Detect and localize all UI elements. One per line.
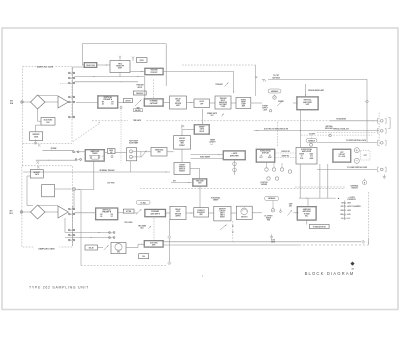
preamp A (triangle) (58, 96, 68, 108)
interconnect dashed labels (275, 150, 296, 158)
svg-text:RESET: RESET (220, 217, 225, 219)
switch contact bus A (72, 71, 74, 119)
power supply note A (262, 106, 268, 112)
wire interlace right long 1 (164, 241, 362, 242)
recovery box small (139, 254, 149, 259)
trigger label and arrow (215, 82, 229, 86)
wire interdot to memory (209, 212, 214, 214)
svg-text:NORM: NORM (299, 154, 304, 156)
wire memory to smoothing (231, 212, 236, 214)
horizontal sweep out label (211, 196, 220, 201)
wire timer contacts to sampling timer (79, 151, 85, 153)
power terminal +300V (341, 202, 351, 204)
dashed link B row (153, 218, 155, 240)
svg-text:CIRCUIT: CIRCUIT (219, 211, 225, 213)
svg-text:TO CRT: TO CRT (273, 75, 279, 77)
dc offset label (265, 215, 273, 221)
svg-text:MILLER: MILLER (179, 138, 186, 140)
internal trigger line (23, 169, 170, 173)
neon bulb 1 (233, 162, 237, 166)
diamond connector right (365, 100, 368, 103)
trig level label (124, 222, 132, 224)
wire trigger multi to timing box (231, 102, 236, 104)
contact pair B2 (68, 213, 74, 215)
dashed enclosure: sampling gate A (23, 65, 73, 143)
long vertical wire right side (366, 79, 368, 142)
variable arrow memory (220, 224, 227, 230)
arrow into time-base (171, 180, 193, 183)
wire bridge A top to amp top (37, 95, 58, 97)
wire connector A to bridge A (23, 101, 30, 103)
svg-text:BLOCKING: BLOCKING (44, 120, 53, 122)
blocking oscillator A (41, 118, 55, 126)
contact pair timer 1 (73, 151, 79, 153)
svg-text:SWEEP: SWEEP (213, 199, 218, 201)
delay line driver B (170, 206, 186, 219)
wire output amp A down to horizontal display (300, 110, 302, 148)
wire trigger multi down to sweep gate (202, 109, 204, 124)
dashed bottom rail (81, 264, 167, 266)
svg-text:INPUT: INPUT (138, 87, 143, 89)
ramp mixer outer box (127, 148, 137, 161)
svg-text:OFF: OFF (341, 206, 344, 208)
power terminal +225V TO HEATERS (341, 205, 361, 208)
svg-text:FINE: FINE (267, 219, 270, 221)
interlace box (144, 240, 164, 247)
contact pair B wire end 1 (109, 232, 115, 234)
sweep generator box (174, 136, 191, 150)
antenna Y symbol (132, 57, 134, 62)
svg-text:HORIZ IN: HORIZ IN (351, 187, 357, 189)
strobe wire from sampling timer (76, 161, 94, 190)
diamond connector low (168, 262, 171, 265)
dashed rail 2 (140, 187, 345, 189)
svg-text:SWEEP: SWEEP (199, 127, 205, 129)
input connector A (21, 101, 24, 104)
svg-text:TIMING: TIMING (241, 99, 247, 101)
dashed stub left of contact pair A3 (60, 82, 69, 84)
svg-text:SUPPLY: SUPPLY (262, 108, 268, 110)
chassis dashed vertical at terminals (378, 113, 380, 148)
variable arrow output B (288, 202, 293, 215)
wire time-base down to interdot (199, 187, 201, 208)
svg-text:TRIGGER: TRIGGER (150, 70, 158, 72)
svg-text:MEMORY: MEMORY (219, 209, 226, 211)
vertical boundary right leg (165, 44, 167, 86)
svg-text:X1: X1 (301, 156, 303, 158)
diagonal dashed wire from gate A to rail (73, 122, 100, 142)
wire trigger pickoff to trigger circuit (164, 72, 235, 94)
svg-text:MEM 2: MEM 2 (220, 215, 225, 217)
variable arrow summing (141, 150, 147, 157)
input connector A label (10, 101, 14, 105)
wire forward gate to delay amp (164, 102, 170, 104)
dashed chassis rail (92, 120, 330, 122)
svg-text:DC SHIFT: DC SHIFT (309, 133, 315, 135)
forward gate amp B (145, 209, 166, 217)
gain adjust box (133, 91, 146, 95)
svg-text:6.3 V: 6.3 V (347, 218, 350, 220)
sampling bridge A (diamond) (31, 95, 46, 109)
svg-text:STROBE: STROBE (51, 148, 57, 150)
vertical preamp A box (98, 96, 119, 109)
wire contacts B to preamp box B (75, 212, 96, 214)
contact pair B5 (68, 239, 74, 241)
wire sweep gen to plus gate (191, 154, 224, 155)
wire preamp A to attenuator A (118, 102, 124, 104)
svg-text:COMP: COMP (241, 104, 246, 106)
svg-text:MEM 1: MEM 1 (220, 213, 225, 215)
timing switch box (174, 163, 190, 175)
blanking terminal (378, 118, 387, 123)
CRT ground (383, 174, 386, 178)
ground delayed gate (270, 234, 273, 238)
pots cluster controls (265, 163, 292, 181)
contact pair timer 2 (75, 159, 81, 161)
svg-text:DIV: DIV (111, 102, 114, 104)
svg-text:DIV: DIV (111, 214, 114, 216)
wire blocking B to timer line (42, 148, 73, 151)
svg-text:+300V: +300V (263, 110, 267, 112)
wire plus gate down (234, 160, 236, 175)
wire to CRT cathode (262, 79, 367, 81)
svg-text:CIRCUIT: CIRCUIT (339, 154, 345, 156)
external horizontal label (351, 184, 359, 189)
wire mixer down (130, 161, 132, 172)
wire interlace right long 2 (164, 244, 369, 246)
variable oval A (268, 89, 281, 93)
wire fga B to delay driver B (166, 212, 170, 214)
svg-text:HORIZ SWEEP: HORIZ SWEEP (200, 157, 210, 159)
svg-text:+300V: +300V (347, 203, 351, 205)
contact pair B3 (68, 229, 74, 231)
switch contact bus B (72, 206, 74, 246)
vertical wire left bus (80, 190, 82, 266)
input connector B (20, 211, 23, 214)
svg-text:SAMPLING GATE: SAMPLING GATE (37, 65, 54, 68)
svg-text:GND: GND (340, 214, 343, 216)
svg-text:INTERDOT: INTERDOT (197, 210, 204, 212)
delay line A (84, 62, 97, 67)
dc level label (255, 77, 257, 79)
wire attenuator B to fga B (134, 212, 138, 214)
input connector B label (9, 211, 13, 215)
inverter A (30, 132, 43, 141)
svg-text:TRIGGER: TRIGGER (136, 85, 144, 87)
svg-text:DLYD TRIG: DLYD TRIG (150, 242, 158, 244)
svg-text:MULTI: MULTI (221, 100, 226, 102)
bal adj label box (134, 109, 143, 112)
svg-text:SWP: SWP (268, 157, 271, 159)
output amplifier B box (297, 206, 317, 220)
CRT gun circle lower (354, 158, 359, 163)
svg-text:SWEEP SEL: SWEEP SEL (282, 156, 290, 158)
contact pair A6 (68, 116, 74, 118)
beam finder circle (362, 179, 366, 185)
svg-text:AMPLIFIER: AMPLIFIER (302, 150, 312, 153)
pot A time position (273, 95, 276, 100)
dashed enclosure: sampling gate B (22, 166, 73, 251)
dashed link attenuator to timer (152, 80, 154, 99)
contact pair A3 (68, 82, 74, 84)
wire delay driver to hold off (187, 102, 195, 103)
to CRT cathode label (272, 75, 280, 79)
plus gate box (223, 151, 246, 160)
svg-text:EXT: EXT (260, 157, 263, 159)
svg-text:DLYD: DLYD (271, 240, 275, 242)
pot under rate sw (111, 155, 113, 158)
stub trig takeoff to wire (119, 73, 121, 77)
dashed rail 2b (295, 186, 345, 188)
trigger sensitivity label (138, 225, 151, 229)
svg-text:OFF: OFF (200, 103, 203, 105)
pot B dc offset (271, 207, 274, 212)
sampling bridge B (diamond) (31, 205, 46, 219)
contact pair A4 (68, 96, 74, 98)
wire timing switch to time-base (190, 169, 200, 179)
wire bridge A bottom to blocking osc A (38, 109, 42, 121)
svg-text:CRT: CRT (364, 155, 367, 157)
vertical wire with diamonds (169, 220, 170, 262)
power bus vertical (344, 201, 346, 220)
svg-text:TIMER: TIMER (92, 153, 98, 155)
wire contact A row 2 (75, 81, 139, 82)
svg-text:COMP: COMP (221, 106, 226, 108)
wire timer to aux (105, 152, 107, 154)
pot below mini oval (310, 143, 313, 147)
wire smoothing to output B (252, 212, 298, 214)
svg-text:BLOCK DIAGRAM: BLOCK DIAGRAM (305, 271, 355, 276)
diamond connector lower right (362, 240, 365, 243)
diamond connector mid (168, 236, 171, 239)
wire sweep gen to timing switch (181, 149, 183, 162)
staircase generator box (151, 148, 167, 157)
svg-text:GEN: GEN (198, 183, 201, 185)
svg-text:EXT TRIG: EXT TRIG (108, 182, 116, 184)
fast ramp label (129, 140, 138, 145)
sweep gate box (194, 124, 210, 134)
dashed vertical swp mag (311, 135, 313, 138)
svg-text:-100V: -100V (347, 214, 351, 216)
svg-text:TRIG LEVEL: TRIG LEVEL (124, 222, 132, 224)
delayed trigger terminal (378, 128, 387, 133)
attenuator marks below inverter A (34, 139, 41, 146)
registration mark (350, 262, 354, 271)
delay pickoff box (85, 245, 98, 250)
ext trigger label (108, 182, 116, 184)
power supply header (347, 197, 356, 201)
wire mixer to staircase (141, 151, 151, 153)
dashed link display to amp (277, 122, 279, 148)
preamp B (triangle) (58, 206, 68, 218)
dc shift dashed line (301, 125, 376, 135)
sweep gate label (207, 112, 224, 117)
trigger amplifier box (110, 61, 130, 73)
wire delay line to trigger amp (97, 64, 110, 65)
svg-text:MEMORY: MEMORY (33, 134, 40, 136)
delayed trigger line (254, 128, 379, 132)
wire sweep gate to sweep generator (182, 130, 194, 136)
CRT dashed outline (361, 151, 371, 160)
contact pair A1 (68, 72, 74, 74)
svg-text:LINE: LINE (176, 101, 180, 103)
svg-text:LINE: LINE (176, 211, 180, 213)
pot sweep cal (269, 109, 271, 112)
output amplifier A box (297, 97, 319, 111)
svg-text:TRIGGER: TRIGGER (220, 98, 228, 100)
contact pair B4 (68, 234, 74, 236)
delayed gate label (271, 240, 275, 244)
svg-text:TYPE 262 SAMPLING UNIT: TYPE 262 SAMPLING UNIT (29, 286, 89, 290)
terminal group bracket (388, 118, 390, 129)
wire timing comp to output amp A (251, 102, 298, 104)
svg-text:DC OFFSET: DC OFFSET (265, 215, 273, 217)
CRT circuit box (333, 149, 351, 163)
attenuator marks B trigger (37, 161, 40, 169)
wire bridge A to amplifier A (45, 101, 58, 103)
wires horizontal amp down to output B (299, 164, 336, 207)
trigger pickoff box (145, 68, 164, 75)
trigger multivibrator box (215, 96, 231, 109)
wire memory gate B down to bridge (27, 176, 33, 206)
dashed vertical right lower (367, 192, 369, 238)
attenuator A (124, 99, 133, 103)
summing node 1 (129, 150, 132, 154)
time-base generator box (193, 179, 208, 187)
junction dot on delayed trigger line (300, 130, 301, 131)
svg-text:POWER SW: POWER SW (347, 199, 356, 201)
wire timer line 2 (36, 160, 76, 161)
wire contact A row to trigger takeoff (75, 76, 145, 77)
dashed wire top right (182, 65, 256, 96)
dashed gap segment between gate A and gate B (22, 143, 24, 166)
svg-text:PREAMP A: PREAMP A (103, 98, 113, 101)
wire trigger takeoff down to sampler (144, 77, 146, 99)
sync takeoff small box (137, 58, 148, 63)
svg-text:X10: X10 (310, 156, 313, 158)
plug-in boundary outline top (82, 44, 166, 65)
svg-text:DC: DC (255, 77, 257, 79)
power terminal -100V (340, 214, 350, 216)
vertical wire to bottom line (368, 238, 369, 245)
svg-text:+ LIGHTS: + LIGHTS (348, 197, 355, 199)
wire output B to indicator (306, 220, 308, 224)
variable oval B (264, 196, 278, 200)
dc bal label box (137, 201, 151, 205)
wire hold off to trigger circuit (210, 102, 216, 104)
svg-text:X1: X1 (89, 155, 91, 157)
svg-text:DISPLAY: DISPLAY (262, 152, 270, 155)
dashed vertical ramp column (120, 110, 122, 164)
horizontal sweep label wire (191, 157, 224, 159)
svg-text:DRIVER: DRIVER (175, 103, 182, 105)
wire trig takeoff to pickoff (130, 71, 145, 72)
svg-text:RUNUP: RUNUP (179, 145, 185, 147)
to upper vertical plate (317, 139, 386, 145)
stray mark (201, 275, 204, 278)
forward gate amp A (144, 99, 164, 107)
wire strobe driver to contacts (55, 188, 72, 190)
variable arrow A (135, 99, 142, 109)
dashed vertical memory (232, 221, 233, 241)
timing comparator box (236, 98, 251, 109)
svg-text:POSITION: POSITION (261, 182, 268, 184)
svg-text:MULTI: MULTI (199, 131, 204, 133)
wire bridge B to amplifier B (45, 211, 58, 213)
junction circle B path (73, 188, 76, 191)
smoothing box with dial (236, 206, 252, 219)
svg-text:SWEEP: SWEEP (179, 140, 185, 142)
flag marker near sweep gate (182, 125, 184, 129)
svg-text:POWER: POWER (262, 106, 268, 108)
svg-text:ON: ON (341, 203, 343, 205)
svg-text:SAMPLING GATE: SAMPLING GATE (38, 248, 55, 251)
summing node 2 (129, 155, 132, 159)
pot swp mag (329, 133, 331, 136)
svg-text:POS: POS (300, 158, 303, 160)
blanking line end (330, 118, 378, 122)
strobe driver B outline (42, 185, 55, 197)
memory box (214, 206, 231, 221)
sweep length label (210, 140, 216, 145)
wire preamp B to attenuator B (118, 212, 123, 214)
svg-text:OUT: OUT (210, 115, 213, 117)
svg-text:SMOOTH: SMOOTH (241, 217, 247, 219)
pot B wire (272, 201, 274, 209)
to lower vertical plate (317, 166, 386, 172)
sampling timer inner box (92, 156, 105, 160)
wire B vertical feedback (64, 218, 66, 233)
svg-text:MEMORY: MEMORY (33, 172, 40, 174)
svg-text:GEN: GEN (157, 152, 160, 154)
svg-text:SWITCH: SWITCH (179, 169, 185, 171)
wire delay driver B to interdot (186, 212, 194, 213)
hold off box (194, 99, 210, 108)
svg-text:TRIG SENS: TRIG SENS (138, 225, 146, 227)
sampling timer box (85, 149, 105, 161)
svg-text:PICKOFF: PICKOFF (151, 72, 158, 74)
wire staircase to sweep gen (167, 151, 174, 153)
vertical preamp B box (95, 208, 118, 220)
wire connector B to bridge B (23, 211, 31, 213)
wire blocking osc A to inverter A (36, 125, 42, 131)
svg-text:OSC: OSC (117, 252, 120, 254)
free run oscillator box (111, 243, 126, 254)
power terminal +100V (341, 209, 351, 212)
contact pair B1 (68, 208, 74, 210)
wire into output amp A from blanking (305, 84, 324, 97)
contact pair B wire end 2 (109, 237, 115, 239)
delay line driver A (170, 96, 187, 109)
svg-text:UNIT: UNIT (306, 104, 310, 106)
CRT gun circle upper (354, 148, 359, 153)
svg-text:MV: MV (100, 214, 102, 216)
svg-text:SWEEP: SWEEP (179, 165, 184, 167)
power feed junction dot (338, 198, 339, 199)
svg-text:PREAMP B: PREAMP B (102, 210, 112, 213)
wire contacts A to preamp A (76, 102, 98, 104)
wire contacts B row 2 (65, 232, 111, 233)
wire junction down (73, 191, 75, 209)
horizontal amplifier box (296, 148, 317, 165)
svg-text:VERNIER: VERNIER (261, 184, 268, 186)
svg-text:MV: MV (102, 102, 104, 104)
contact pair A2 (68, 77, 74, 79)
memory gate B box (30, 170, 43, 178)
neon bulb 2 (233, 168, 237, 172)
svg-text:DRIVER: DRIVER (175, 213, 182, 215)
small contact sym B (280, 209, 282, 213)
